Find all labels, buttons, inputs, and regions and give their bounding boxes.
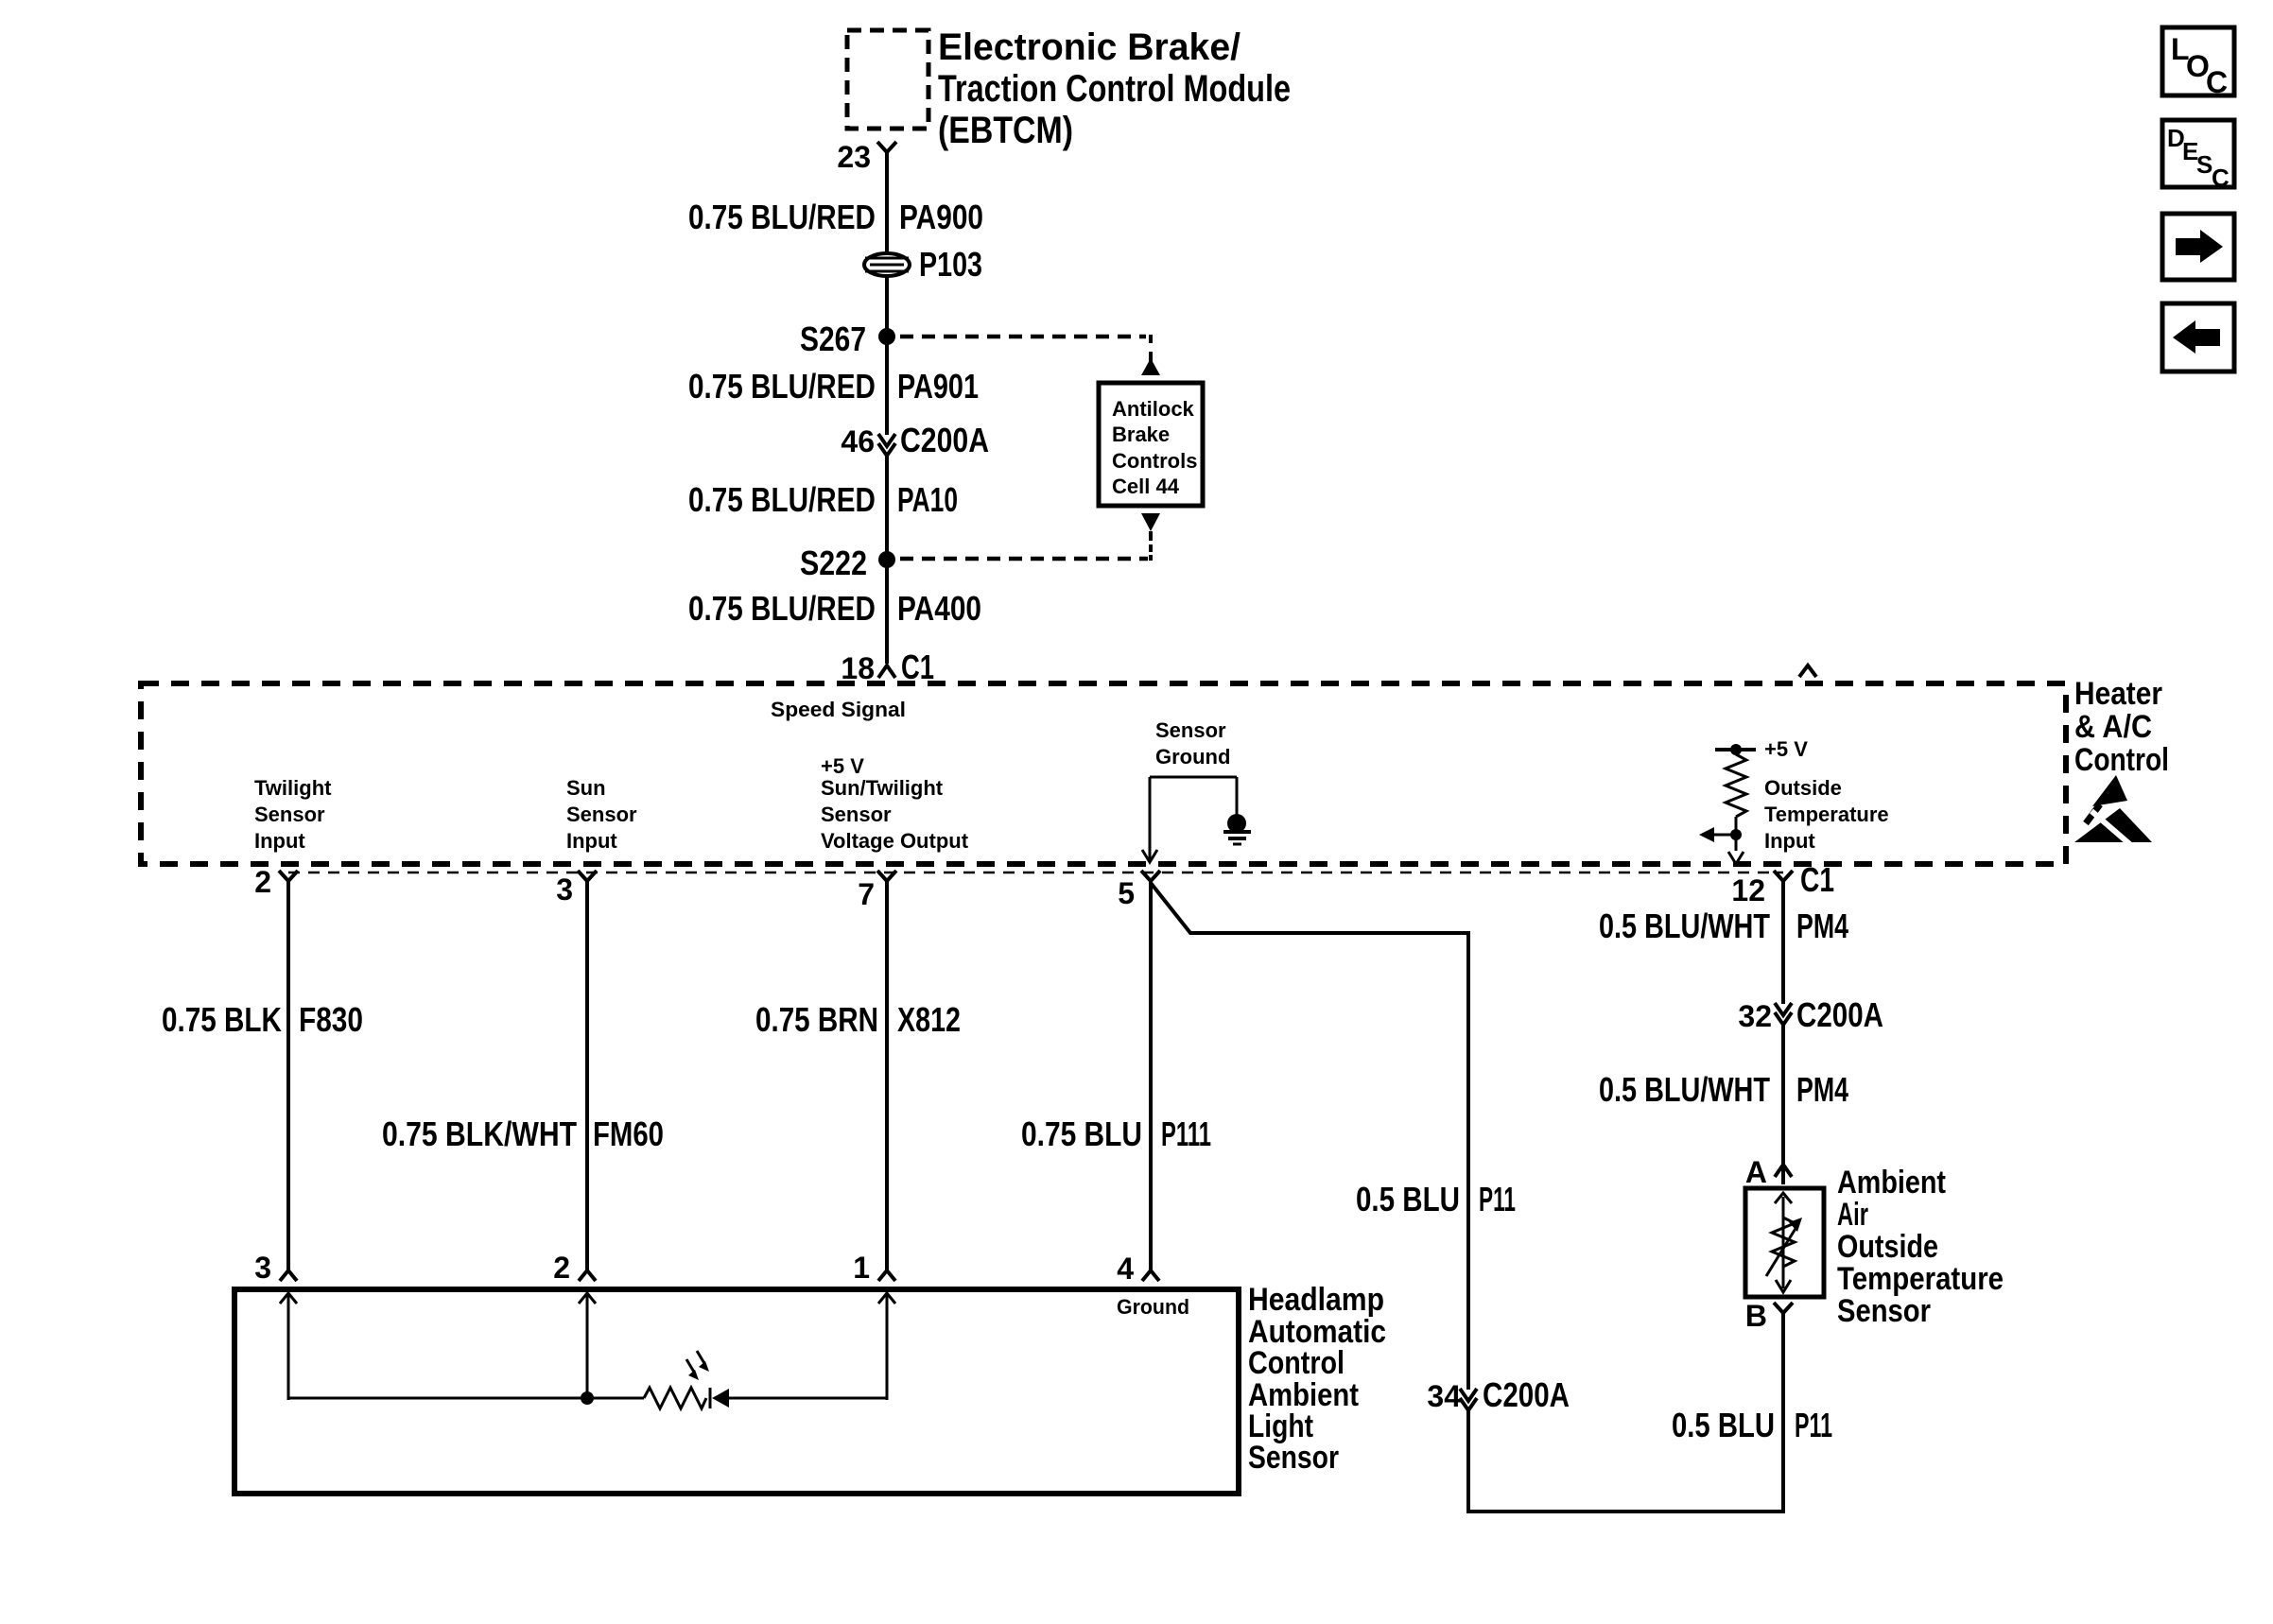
svg-text:Ground: Ground — [1117, 1295, 1189, 1319]
svg-text:Sensor: Sensor — [821, 803, 892, 826]
svg-text:Heater: Heater — [2074, 676, 2162, 712]
svg-text:(EBTCM): (EBTCM) — [938, 110, 1073, 151]
svg-text:Sensor: Sensor — [1155, 718, 1226, 742]
svg-text:B: B — [1745, 1299, 1767, 1333]
svg-text:C1: C1 — [1800, 860, 1834, 899]
svg-text:P11: P11 — [1479, 1180, 1516, 1218]
svg-text:P11: P11 — [1795, 1406, 1832, 1444]
svg-text:34: 34 — [1427, 1379, 1461, 1413]
svg-text:Sun/Twilight: Sun/Twilight — [821, 776, 944, 800]
svg-text:A: A — [1745, 1155, 1767, 1189]
svg-text:1: 1 — [853, 1251, 870, 1285]
svg-text:7: 7 — [858, 877, 875, 911]
svg-text:Headlamp: Headlamp — [1248, 1282, 1384, 1318]
svg-text:Sensor: Sensor — [1837, 1293, 1931, 1329]
svg-text:C: C — [2206, 65, 2228, 99]
svg-text:12: 12 — [1731, 873, 1765, 907]
svg-text:0.5 BLU/WHT: 0.5 BLU/WHT — [1599, 1070, 1770, 1109]
svg-text:PA900: PA900 — [899, 198, 983, 236]
svg-text:Twilight: Twilight — [254, 776, 332, 800]
svg-text:Outside: Outside — [1837, 1229, 1938, 1265]
svg-text:Speed Signal: Speed Signal — [771, 698, 906, 721]
svg-text:Input: Input — [566, 829, 617, 853]
svg-text:Voltage Output: Voltage Output — [821, 829, 969, 853]
svg-text:46: 46 — [841, 424, 875, 458]
svg-text:S: S — [2196, 150, 2212, 179]
svg-text:Sensor: Sensor — [1248, 1440, 1339, 1476]
svg-text:0.75 BLK/WHT: 0.75 BLK/WHT — [382, 1114, 577, 1153]
svg-text:5: 5 — [1118, 876, 1135, 910]
svg-text:+5 V: +5 V — [821, 754, 864, 778]
svg-text:C: C — [2212, 164, 2230, 192]
svg-text:PM4: PM4 — [1796, 1070, 1848, 1109]
svg-text:S267: S267 — [800, 320, 866, 358]
svg-text:Temperature: Temperature — [1764, 803, 1889, 826]
svg-text:3: 3 — [254, 1251, 271, 1285]
svg-text:Input: Input — [1764, 829, 1815, 853]
svg-text:PA10: PA10 — [897, 480, 958, 519]
svg-text:Sensor: Sensor — [566, 803, 637, 826]
svg-text:PM4: PM4 — [1796, 907, 1848, 945]
svg-text:0.75 BRN: 0.75 BRN — [755, 1000, 878, 1039]
svg-text:C200A: C200A — [900, 421, 989, 459]
svg-text:0.75 BLU/RED: 0.75 BLU/RED — [688, 589, 876, 628]
svg-text:Ground: Ground — [1155, 745, 1230, 769]
svg-text:Controls: Controls — [1112, 449, 1197, 473]
svg-text:23: 23 — [837, 140, 871, 174]
svg-text:S222: S222 — [800, 544, 867, 582]
svg-text:C1: C1 — [901, 648, 934, 686]
svg-text:Cell 44: Cell 44 — [1112, 475, 1180, 498]
svg-text:PA400: PA400 — [897, 589, 981, 628]
svg-text:Traction Control Module: Traction Control Module — [938, 68, 1291, 110]
svg-text:Outside: Outside — [1764, 776, 1842, 800]
svg-text:0.5 BLU: 0.5 BLU — [1672, 1406, 1775, 1444]
svg-text:Control: Control — [2074, 742, 2169, 778]
svg-text:PA901: PA901 — [897, 367, 979, 406]
svg-text:Input: Input — [254, 829, 305, 853]
svg-text:F830: F830 — [299, 1000, 363, 1039]
svg-text:Temperature: Temperature — [1837, 1261, 2004, 1297]
svg-text:32: 32 — [1738, 999, 1772, 1033]
svg-text:0.75 BLU/RED: 0.75 BLU/RED — [688, 480, 876, 519]
svg-text:Air: Air — [1837, 1197, 1868, 1233]
svg-text:& A/C: & A/C — [2074, 709, 2152, 745]
svg-text:3: 3 — [556, 872, 573, 907]
svg-text:Electronic Brake/: Electronic Brake/ — [938, 26, 1241, 68]
svg-text:18: 18 — [841, 651, 875, 685]
svg-text:FM60: FM60 — [593, 1114, 664, 1153]
svg-text:0.5 BLU: 0.5 BLU — [1356, 1180, 1460, 1218]
svg-text:Control: Control — [1248, 1345, 1345, 1381]
svg-text:P111: P111 — [1161, 1114, 1211, 1153]
svg-text:0.75 BLU/RED: 0.75 BLU/RED — [688, 198, 876, 236]
svg-text:X812: X812 — [897, 1000, 961, 1039]
svg-text:0.5 BLU/WHT: 0.5 BLU/WHT — [1599, 907, 1770, 945]
svg-text:Brake: Brake — [1112, 423, 1170, 446]
svg-text:2: 2 — [553, 1251, 570, 1285]
svg-text:Antilock: Antilock — [1112, 397, 1195, 421]
svg-text:C200A: C200A — [1796, 995, 1883, 1034]
svg-text:0.75 BLU/RED: 0.75 BLU/RED — [688, 367, 876, 406]
svg-text:2: 2 — [254, 865, 271, 899]
svg-text:0.75 BLK: 0.75 BLK — [162, 1000, 282, 1039]
svg-text:4: 4 — [1117, 1252, 1134, 1286]
svg-text:Sun: Sun — [566, 776, 606, 800]
svg-text:+5 V: +5 V — [1764, 737, 1808, 761]
svg-text:Sensor: Sensor — [254, 803, 325, 826]
svg-text:Ambient: Ambient — [1837, 1165, 1946, 1201]
svg-text:P103: P103 — [919, 245, 982, 284]
svg-text:0.75 BLU: 0.75 BLU — [1021, 1114, 1142, 1153]
svg-text:C200A: C200A — [1483, 1375, 1570, 1414]
